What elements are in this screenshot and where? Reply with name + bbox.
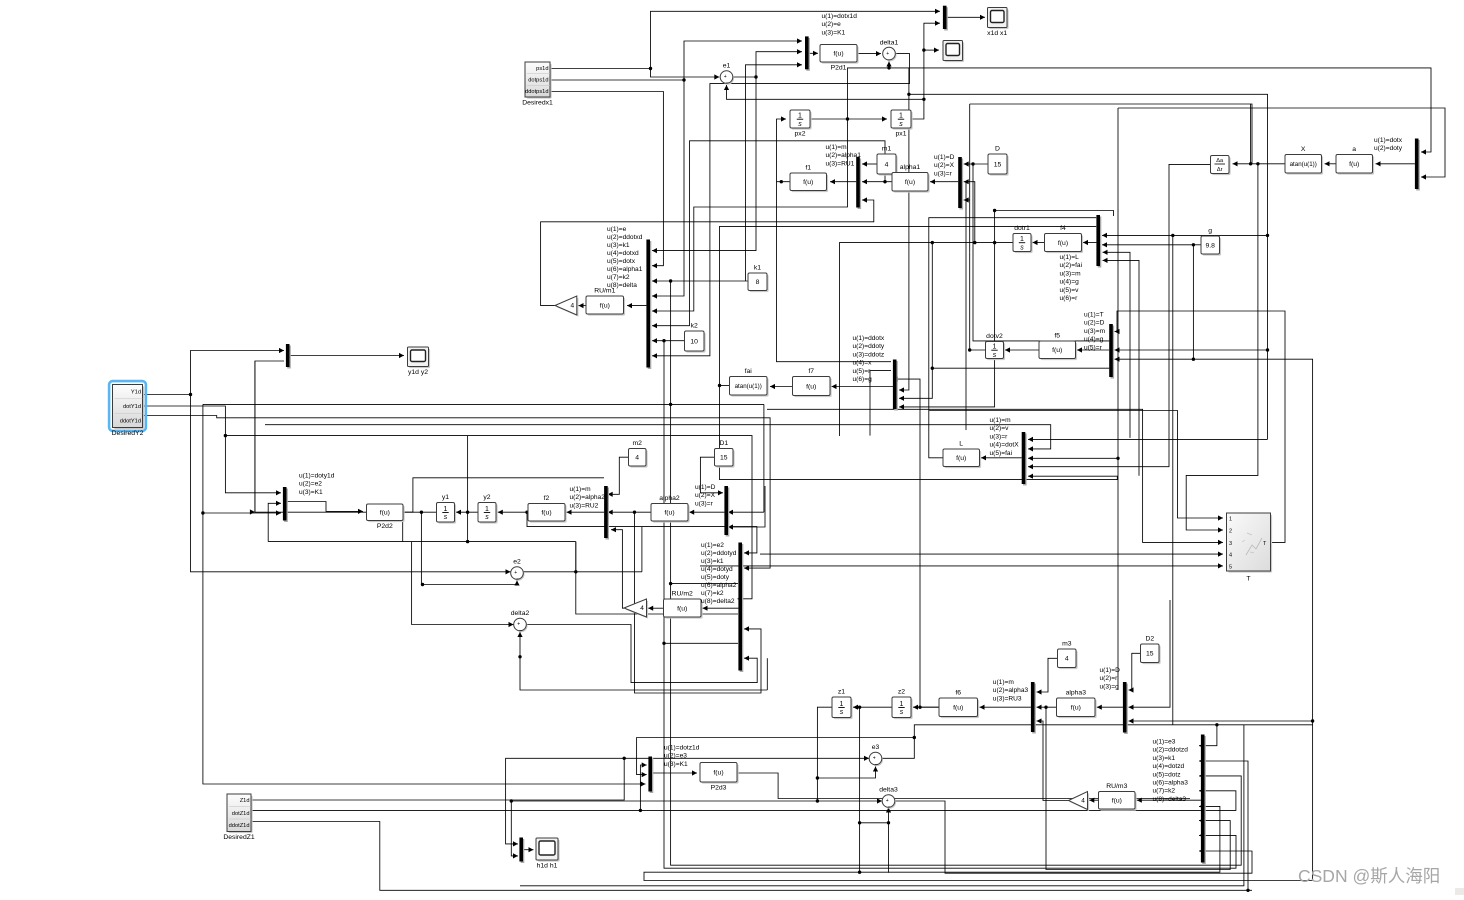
wire ddotps1d — [550, 92, 663, 269]
svg-text:alpha2: alpha2 — [659, 495, 680, 502]
mux f2-in — [604, 486, 609, 540]
svg-text:s: s — [798, 121, 802, 128]
mux f5-in — [1109, 324, 1114, 379]
wire m2 to muxJ — [608, 457, 629, 497]
svg-text:z2: z2 — [898, 689, 905, 696]
svg-text:f7: f7 — [808, 368, 814, 375]
wire y104 join — [1250, 104, 1252, 164]
constant m3 — [1058, 641, 1078, 670]
wire e3 to muxP2d3 — [637, 738, 915, 778]
mux y1d-scope — [286, 344, 291, 369]
svg-text:DesiredZ1: DesiredZ1 — [223, 834, 255, 841]
constant g — [1201, 228, 1221, 256]
svg-text:e1: e1 — [723, 63, 731, 70]
svg-text:f(u): f(u) — [541, 510, 551, 517]
wire muxH to L — [981, 455, 1022, 460]
integrator px2 — [790, 110, 812, 138]
wire muxO out — [1137, 798, 1201, 803]
sum delta1 — [880, 39, 899, 61]
svg-text:5: 5 — [1229, 564, 1232, 570]
svg-text:f(u): f(u) — [1112, 798, 1122, 805]
wire D to mux — [964, 161, 988, 166]
svg-text:15: 15 — [720, 455, 728, 462]
svg-text:f(u): f(u) — [1052, 347, 1062, 354]
wire T out — [1115, 311, 1286, 542]
svg-text:_: _ — [725, 78, 729, 84]
svg-text:f(u): f(u) — [600, 302, 610, 309]
wire delta3 bottom — [886, 808, 891, 873]
mux RUm2-in — [738, 543, 743, 673]
svg-text:P2d3: P2d3 — [711, 785, 727, 792]
wire f7 to fai — [770, 384, 793, 389]
wire RUm2 to gain — [648, 606, 663, 611]
wire L out — [929, 218, 1096, 458]
wire px1 out — [911, 21, 940, 119]
svg-text:s: s — [993, 352, 997, 359]
svg-text:Y1d: Y1d — [131, 390, 141, 396]
svg-text:1: 1 — [1020, 236, 1024, 243]
wire r stub muxE — [1103, 258, 1140, 476]
svg-text:k1: k1 — [754, 265, 761, 272]
wire v out — [968, 252, 986, 351]
svg-text:15: 15 — [994, 161, 1002, 168]
wire y104 drop — [969, 104, 971, 252]
svg-text:_: _ — [888, 55, 892, 61]
wire f1 branch — [777, 182, 892, 362]
wire m3 to muxM — [1037, 658, 1058, 694]
svg-text:f(u): f(u) — [1058, 240, 1068, 247]
wire alpha3 to muxO — [1046, 707, 1230, 869]
mux P2d1-in — [805, 36, 810, 70]
wire P2d3 out — [737, 773, 1190, 799]
svg-text:3: 3 — [1229, 541, 1232, 547]
wire RU3 feedback — [1037, 718, 1069, 800]
wire X2 to muxK — [728, 510, 764, 515]
svg-text:10: 10 — [690, 338, 698, 345]
svg-text:f(u): f(u) — [380, 510, 390, 517]
svg-text:h1d h1: h1d h1 — [537, 863, 558, 870]
fcn P2d1 — [820, 45, 859, 72]
svg-text:m1: m1 — [882, 146, 892, 153]
wire muxD to f7 — [832, 384, 894, 389]
svg-text:e3: e3 — [872, 744, 880, 751]
wire delta2 bottom src — [766, 658, 768, 690]
fcn X — [1285, 146, 1323, 175]
wire doty to RUm2mux5 — [576, 542, 738, 614]
svg-text:4: 4 — [635, 455, 639, 462]
mux DXr-2 — [724, 486, 729, 537]
wire RU1 feedback — [541, 197, 874, 305]
fcn P2d2 — [367, 504, 405, 530]
wire dotx to RUm1mux — [652, 119, 848, 314]
wire a to X — [1325, 161, 1337, 166]
svg-text:alpha3: alpha3 — [1066, 690, 1087, 697]
svg-text:RU/m3: RU/m3 — [1106, 783, 1127, 790]
mux h1d-scope — [519, 838, 524, 864]
wire RUm1 to gain — [579, 303, 587, 308]
wire m to muxF — [1115, 347, 1268, 352]
fcn L — [943, 441, 981, 469]
constant k2 — [685, 323, 706, 353]
wire f2 to y2 — [498, 510, 529, 515]
wire x1 to scope — [924, 48, 939, 53]
wire row R4 — [265, 425, 1051, 452]
wire m1 to mux — [862, 161, 877, 166]
scope x1 — [943, 41, 964, 63]
svg-text:DesiredY2: DesiredY2 — [112, 430, 144, 437]
wire g to muxN — [1129, 718, 1313, 723]
wire y1 to e2 — [421, 512, 520, 586]
sum delta2 — [511, 610, 530, 632]
fcn f4 — [1045, 225, 1084, 253]
wire D2 to muxN — [1129, 653, 1141, 692]
wire px2 out — [810, 116, 887, 121]
wire T4 row — [760, 552, 1223, 557]
svg-text:CSDN @斯人海阳: CSDN @斯人海阳 — [1298, 866, 1440, 886]
svg-text:s: s — [900, 709, 904, 716]
svg-text:f2: f2 — [544, 495, 550, 502]
svg-text:8: 8 — [756, 279, 760, 286]
wire ps1d — [550, 9, 940, 71]
wire dotps1d — [550, 38, 802, 81]
wire k1 to RUm2mux — [669, 404, 1241, 865]
fcn RU/m3 — [1099, 783, 1137, 811]
fcn RU/m2 — [664, 591, 703, 619]
wire delta2 out — [527, 625, 758, 683]
wire g to muxF — [1115, 245, 1196, 362]
svg-text:4: 4 — [1081, 798, 1085, 805]
wire dotz tap — [860, 707, 1220, 872]
mux alpha1-in — [856, 157, 861, 209]
wire dotyd row — [225, 436, 752, 602]
svg-text:px2: px2 — [795, 131, 806, 138]
integrator dotv2 — [986, 333, 1006, 360]
mux a-in — [1415, 139, 1420, 191]
constant D2 — [1141, 636, 1161, 665]
wire e2 out — [524, 570, 642, 573]
wire e2 tap — [575, 542, 577, 572]
svg-text:f(u): f(u) — [1071, 705, 1081, 712]
wire k1 to P2d1mux — [746, 62, 803, 281]
svg-text:Δa: Δa — [1216, 158, 1224, 164]
svg-text:f(u): f(u) — [713, 770, 723, 777]
integrator z1 — [832, 689, 853, 720]
fcn P2d3 — [700, 763, 739, 792]
wire box f4 top — [993, 209, 1114, 216]
gain 4 y — [624, 599, 648, 619]
svg-text:f(u): f(u) — [905, 179, 915, 186]
wire v stub — [1103, 250, 1131, 438]
wire muxL2 out — [703, 606, 739, 611]
wire g to muxE — [1102, 242, 1193, 247]
svg-text:s: s — [444, 514, 448, 521]
wire y541 row — [268, 540, 576, 543]
wire doty to muxH3 — [1028, 456, 1118, 461]
svg-text:m3: m3 — [1062, 641, 1072, 648]
wire row R2 — [929, 411, 1223, 521]
mux f7-in — [893, 360, 898, 411]
mux L-in — [1022, 432, 1027, 486]
constant D — [988, 146, 1009, 176]
svg-text:1: 1 — [1229, 517, 1232, 523]
wire f4 to dotr1 — [1033, 240, 1045, 245]
svg-text:1: 1 — [900, 701, 904, 708]
fcn alpha2 — [651, 495, 690, 523]
svg-text:dotr1: dotr1 — [1014, 225, 1030, 232]
svg-text:x1d x1: x1d x1 — [987, 30, 1007, 37]
constant m1 — [877, 146, 898, 176]
wire Y1d up — [191, 348, 285, 395]
svg-text:9.8: 9.8 — [1205, 242, 1215, 249]
svg-text:D2: D2 — [1145, 636, 1154, 643]
wire deriv out dotX — [1028, 164, 1211, 469]
svg-text:L: L — [959, 441, 963, 448]
svg-text:a: a — [1352, 146, 1356, 153]
svg-text:z1: z1 — [838, 689, 845, 696]
wire e1 out — [733, 75, 758, 78]
wire y1dmux to scope — [290, 353, 405, 358]
svg-text:f5: f5 — [1054, 333, 1060, 340]
wire alpha1 out — [862, 179, 892, 184]
svg-text:ddotZ1d: ddotZ1d — [229, 823, 250, 829]
svg-text:m2: m2 — [632, 440, 642, 447]
svg-text:y1d y2: y1d y2 — [408, 369, 428, 376]
svg-text:dotY1d: dotY1d — [123, 404, 141, 410]
wire e to RUm1mux — [652, 77, 756, 253]
wire dotx to delta1 — [848, 66, 891, 119]
wire m to muxE — [1102, 233, 1268, 238]
wire z1 to h1dmux — [510, 799, 518, 858]
wire muxB to alpha1 — [930, 179, 958, 184]
wire muxP2d3 out — [652, 770, 697, 775]
wire e3 out — [882, 723, 1313, 758]
scope h1d h1 — [536, 838, 560, 870]
svg-text:1: 1 — [798, 113, 802, 120]
wire muxB in3 — [964, 197, 970, 202]
mux P2d2-in — [283, 487, 288, 522]
sum e1 — [720, 63, 734, 85]
svg-text:px1: px1 — [896, 131, 907, 138]
integrator y2 — [478, 494, 498, 524]
svg-text:f1: f1 — [805, 165, 811, 172]
svg-text:delta3: delta3 — [879, 787, 898, 794]
wire f5 to dotv2 — [1005, 347, 1039, 352]
svg-text:4: 4 — [640, 605, 644, 612]
svg-text:4: 4 — [1065, 656, 1069, 663]
wire dotZ1d — [251, 762, 647, 812]
wire box bottom right — [520, 725, 1244, 886]
svg-text:f(u): f(u) — [953, 705, 963, 712]
wire row R3 — [767, 409, 1223, 545]
wire dotzd long — [640, 788, 1236, 810]
constant D1 — [715, 440, 735, 468]
wire K1 row — [203, 403, 764, 406]
wire ps1d to e1 — [651, 69, 720, 80]
svg-text:D1: D1 — [719, 440, 728, 447]
svg-text:y1: y1 — [442, 494, 449, 501]
wire dotr1 out — [840, 241, 1014, 436]
wire g out — [1192, 243, 1201, 246]
wire doty drop — [1116, 108, 1119, 690]
wire z1 to delta3 — [817, 798, 882, 803]
wire K1 corner drop — [763, 404, 765, 512]
wire g long — [644, 359, 1314, 880]
wire r2 to muxK — [728, 486, 765, 530]
fcn a — [1336, 146, 1374, 175]
wire doty to y541 — [402, 512, 404, 541]
wire vert 966 — [965, 182, 967, 430]
svg-text:f(u): f(u) — [833, 51, 843, 58]
wire f2dd to f7mux — [870, 371, 891, 436]
mux P2d3-in — [648, 757, 653, 794]
wire delta1 bottom — [886, 62, 891, 68]
svg-text:4: 4 — [1229, 553, 1232, 559]
svg-text:T: T — [1246, 576, 1250, 583]
wire e2 to muxI — [268, 501, 281, 542]
wire muxI out — [287, 502, 364, 515]
wire y2out to y1dmux — [250, 361, 284, 515]
wire Z1d — [251, 756, 869, 800]
svg-text:P2d1: P2d1 — [831, 65, 847, 72]
wire e to P2d1mux — [756, 49, 802, 77]
svg-text:Δr: Δr — [1217, 167, 1223, 173]
fcn alpha1 — [892, 164, 930, 193]
wire delta2 bottom — [517, 632, 767, 690]
svg-text:alpha1: alpha1 — [900, 164, 921, 171]
svg-text:_: _ — [519, 626, 523, 632]
wire k2 to RUm2mux — [664, 642, 738, 644]
svg-text:k2: k2 — [691, 323, 698, 330]
wire doty long — [1118, 108, 1445, 180]
wire Y1d — [143, 393, 193, 396]
wire K1 trunk — [670, 281, 672, 404]
wire dotxd to mux — [652, 80, 684, 299]
svg-text:ps1d: ps1d — [536, 66, 548, 72]
wire Y1d down — [191, 395, 511, 575]
mux RUm1-in — [646, 240, 651, 370]
svg-text:u(1)=dotxu(2)=doty: u(1)=dotxu(2)=doty — [1374, 137, 1403, 152]
wire muxK to alpha2 — [689, 510, 724, 515]
scope y1d y2 — [408, 347, 431, 376]
wire m row — [909, 94, 1269, 439]
svg-text:y2: y2 — [483, 494, 490, 501]
wire m drop — [1172, 235, 1174, 724]
gain 4 z — [1069, 792, 1090, 812]
corner mark — [1455, 888, 1464, 895]
constant m2 — [629, 440, 648, 468]
svg-text:s: s — [840, 709, 844, 716]
fcn alpha3 — [1057, 690, 1097, 719]
wire delta3 out — [895, 801, 1252, 873]
svg-text:e2: e2 — [513, 559, 521, 566]
svg-text:u(1)=Du(2)=Xu(3)=r: u(1)=Du(2)=Xu(3)=r — [934, 154, 955, 177]
wire k1 row2 — [671, 583, 738, 585]
svg-text:1: 1 — [840, 701, 844, 708]
svg-text:f(u): f(u) — [803, 179, 813, 186]
wire y1 out — [255, 361, 437, 514]
integrator y1 — [437, 494, 457, 524]
svg-text:f(u): f(u) — [677, 605, 687, 612]
wire f2 branch — [527, 512, 757, 555]
wire delta1 out — [652, 54, 910, 359]
svg-text:Desiredx1: Desiredx1 — [522, 100, 553, 107]
svg-text:ddotY1d: ddotY1d — [120, 418, 141, 424]
fcn f1 — [790, 165, 828, 193]
svg-text:1: 1 — [444, 506, 448, 513]
svg-text:_: _ — [516, 574, 520, 580]
constant k1 — [748, 265, 769, 293]
integrator dotr1 — [1013, 225, 1033, 253]
wire RUm3 to gain — [1089, 798, 1098, 803]
wire T5 row — [700, 563, 1223, 568]
wire r to muxF — [932, 367, 1109, 369]
wire X chain dots — [1233, 161, 1286, 166]
fcn RU/m1 — [586, 288, 625, 316]
wire f1 out — [777, 116, 791, 183]
wire muxF to f5 — [1077, 347, 1109, 352]
subsystem T — [1227, 513, 1273, 583]
mux RUm3-in — [1201, 735, 1206, 865]
svg-text:fai: fai — [745, 368, 753, 375]
svg-text:dotZ1d: dotZ1d — [232, 811, 250, 817]
sum e2 — [511, 559, 525, 581]
svg-text:f(u): f(u) — [806, 383, 816, 390]
wire x to f7mux — [899, 68, 911, 393]
wire r to f7mux — [899, 243, 934, 401]
wire z1 to e3 — [817, 767, 878, 779]
wire dotY1d — [143, 406, 282, 495]
wire r to muxN — [1129, 600, 1171, 710]
wire ddotzd riser — [1199, 758, 1248, 890]
wire muxG to a — [1376, 161, 1415, 166]
wire muxE to f4 — [1083, 240, 1096, 245]
svg-text:15: 15 — [1146, 651, 1154, 658]
sum e3 — [869, 744, 883, 766]
svg-text:g: g — [1208, 228, 1212, 235]
svg-text:u(1)=Du(2)=ru(3)=g: u(1)=Du(2)=ru(3)=g — [1100, 667, 1121, 690]
wire z2 to z1 — [853, 705, 892, 710]
svg-text:D: D — [995, 146, 1000, 153]
wire D trunk — [973, 164, 1109, 341]
wire doty tap — [467, 436, 469, 542]
wire muxN to alpha3 — [1097, 705, 1123, 710]
wire k2 out — [652, 338, 685, 343]
wire delta3 bottom link — [858, 821, 889, 824]
wire K1 left drop — [201, 404, 645, 786]
wire ddotY1d — [143, 416, 771, 571]
derivative da/dr — [1211, 156, 1231, 176]
svg-text:2: 2 — [1229, 529, 1232, 535]
wire alpha1 to RUm1mux — [652, 141, 885, 328]
svg-text:s: s — [485, 514, 489, 521]
svg-text:X: X — [1301, 146, 1306, 153]
wire z1 out — [511, 707, 832, 803]
svg-text:dotps1d: dotps1d — [528, 78, 548, 84]
wire X to T2 — [1186, 164, 1258, 533]
source DesiredZ1 — [223, 794, 255, 841]
wire alpha2 to RUm2mux — [635, 512, 762, 693]
svg-text:f6: f6 — [955, 690, 961, 697]
wire g to f7mux — [899, 211, 995, 410]
svg-text:delta1: delta1 — [880, 39, 899, 46]
wire h1dmux to scope — [523, 847, 534, 852]
mux f6-in — [1031, 682, 1036, 734]
svg-text:atan(u(1)): atan(u(1)) — [735, 383, 762, 390]
svg-text:1: 1 — [485, 506, 489, 513]
svg-text:u(1)=Du(2)=Xu(3)=r: u(1)=Du(2)=Xu(3)=r — [695, 484, 716, 507]
svg-text:1: 1 — [899, 113, 903, 120]
wire fai to muxH — [720, 386, 1118, 480]
